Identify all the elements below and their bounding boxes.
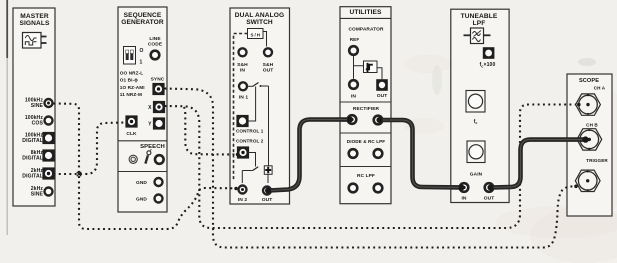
svg-text:IN: IN bbox=[351, 94, 356, 100]
jack CONTROL 2 bbox=[236, 139, 264, 159]
jack comparator IN bbox=[348, 79, 359, 100]
svg-text:IN 2: IN 2 bbox=[238, 197, 248, 203]
switch 2 symbol bbox=[242, 167, 258, 183]
svg-text:GENERATOR: GENERATOR bbox=[121, 19, 164, 26]
knob fc bbox=[466, 91, 485, 126]
svg-text:SPEECH: SPEECH bbox=[140, 144, 165, 150]
plug at CH B bbox=[582, 136, 588, 142]
svg-text:RC LPF: RC LPF bbox=[357, 173, 375, 179]
jack rc lpf out bbox=[372, 182, 383, 193]
svg-text:CODE: CODE bbox=[148, 41, 163, 47]
jack comparator OUT bbox=[376, 79, 388, 99]
plug at lpf IN bbox=[459, 185, 465, 191]
jack X bbox=[148, 101, 165, 113]
jack S&H OUT bbox=[263, 47, 274, 73]
svg-text:Y: Y bbox=[148, 121, 152, 127]
svg-text:X: X bbox=[148, 105, 152, 111]
wire thick lpf OUT to scope CH B bbox=[492, 140, 585, 188]
plug at CH A bbox=[577, 103, 581, 107]
module TUNEABLE LPF bbox=[451, 9, 509, 202]
bnc CH B bbox=[577, 129, 602, 150]
microphone icon bbox=[145, 149, 151, 163]
rectifier divider bbox=[340, 101, 391, 103]
faint pink ghost band 1 bbox=[404, 55, 452, 73]
svg-text:S&H: S&H bbox=[237, 62, 248, 68]
plug at lpf OUT bbox=[488, 185, 494, 191]
wire thick rectifier out to lpf IN bbox=[380, 120, 459, 187]
module UTILITIES bbox=[340, 7, 391, 204]
module MASTER SIGNALS bbox=[13, 8, 55, 206]
jack CONTROL 1 bbox=[236, 115, 264, 133]
jack REF bbox=[348, 45, 359, 56]
svg-text:DIGITAL: DIGITAL bbox=[22, 155, 43, 161]
bnc TRIGGER bbox=[575, 170, 600, 191]
jack GND 1 bbox=[136, 177, 164, 187]
jack Y bbox=[148, 117, 165, 129]
svg-text:LINE: LINE bbox=[149, 36, 161, 42]
line code table bbox=[120, 71, 145, 98]
jack 8kHz DIGITAL bbox=[22, 149, 54, 161]
svg-text:DUAL ANALOG: DUAL ANALOG bbox=[235, 12, 284, 19]
DIP switch bbox=[124, 47, 144, 66]
svg-text:DIGITAL: DIGITAL bbox=[22, 173, 43, 179]
S/H block bbox=[248, 29, 264, 39]
jack S&H IN bbox=[237, 47, 248, 73]
svg-text:1O RZ-AMI: 1O RZ-AMI bbox=[120, 85, 145, 90]
wire dotted X to CONTROL 2 bbox=[184, 107, 235, 155]
jack GND 2 bbox=[136, 193, 164, 203]
svg-text:GAIN: GAIN bbox=[470, 172, 483, 178]
plug at rectifier out bbox=[377, 117, 383, 123]
svg-text:DIGITAL: DIGITAL bbox=[22, 138, 43, 144]
faint pink ghost band 3 bbox=[495, 206, 617, 238]
switch 2 control box bbox=[264, 166, 272, 183]
speech section divider bbox=[118, 140, 167, 142]
svg-text:SEQUENCE: SEQUENCE bbox=[124, 12, 162, 19]
svg-text:UTILITIES: UTILITIES bbox=[349, 9, 382, 16]
svg-text:COS: COS bbox=[32, 120, 44, 126]
jack SYNC bbox=[151, 77, 165, 96]
svg-text:O1 Bi-ϕ: O1 Bi-ϕ bbox=[120, 78, 138, 83]
jack lpf IN bbox=[458, 182, 469, 202]
svg-text:SINE: SINE bbox=[31, 191, 44, 197]
jack 100kHz COS bbox=[25, 115, 54, 126]
svg-text:TUNEABLE: TUNEABLE bbox=[461, 13, 498, 20]
crossing tick at sine wire bbox=[77, 172, 81, 176]
svg-text:GND: GND bbox=[136, 197, 147, 203]
svg-text:SCOPE: SCOPE bbox=[579, 78, 599, 84]
svg-text:OUT: OUT bbox=[377, 93, 388, 99]
svg-text:SWITCH: SWITCH bbox=[246, 19, 273, 26]
svg-text:OUT: OUT bbox=[484, 196, 495, 202]
jack IN 2 bbox=[237, 184, 247, 203]
jack CLK bbox=[125, 115, 137, 137]
knob GAIN bbox=[467, 141, 485, 178]
wire thick dual OUT to rectifier in bbox=[269, 120, 348, 191]
rc lpf divider bbox=[340, 166, 391, 168]
jack 100kHz SINE bbox=[25, 98, 54, 109]
svg-text:DIODE & RC LPF: DIODE & RC LPF bbox=[347, 139, 385, 144]
bnc CH A bbox=[576, 94, 601, 115]
jack 2kHz DIGITAL bbox=[22, 167, 54, 179]
svg-text:GND: GND bbox=[136, 180, 147, 186]
jack lpf OUT bbox=[483, 182, 494, 202]
svg-text:CONTROL 1: CONTROL 1 bbox=[236, 128, 264, 133]
faint pink ghost band 2 bbox=[404, 118, 444, 134]
master signals icon bbox=[23, 33, 47, 49]
svg-text:SYNC: SYNC bbox=[151, 77, 165, 83]
svg-text:OUT: OUT bbox=[263, 67, 274, 73]
svg-text:IN 1: IN 1 bbox=[239, 95, 249, 101]
faint pink tint bottom right bbox=[530, 207, 617, 263]
svg-text:1: 1 bbox=[140, 60, 143, 66]
module DUAL ANALOG SWITCH bbox=[230, 8, 290, 204]
S/H block right link to S&H OUT bbox=[263, 32, 267, 47]
svg-text:IN: IN bbox=[461, 196, 466, 202]
plug at IN 2 bbox=[234, 187, 237, 190]
svg-text:RECTIFIER: RECTIFIER bbox=[353, 106, 380, 112]
svg-text:SINE: SINE bbox=[31, 103, 44, 109]
comparator wiring bbox=[354, 56, 364, 79]
scan page edge line bbox=[6, 0, 8, 58]
speech trimpot bbox=[129, 155, 137, 163]
diode lpf divider bbox=[340, 132, 391, 134]
svg-text:O: O bbox=[140, 48, 144, 54]
svg-text:TRIGGER: TRIGGER bbox=[586, 158, 608, 163]
jack rc lpf in bbox=[347, 182, 358, 193]
wire dotted X to scope CH A bbox=[165, 105, 577, 229]
jack fc x100 bbox=[483, 47, 495, 59]
jack diode lpf out bbox=[372, 148, 383, 159]
module SCOPE bbox=[567, 74, 612, 216]
control 1 line bbox=[248, 87, 256, 122]
module SEQUENCE GENERATOR bbox=[118, 7, 167, 212]
jack 100kHz DIGITAL bbox=[22, 132, 54, 144]
switch 1 symbol bbox=[248, 83, 269, 167]
svg-text:CH B: CH B bbox=[586, 123, 598, 128]
jack OUT (dual analog switch) bbox=[262, 185, 273, 203]
plug at dual OUT bbox=[265, 188, 271, 194]
comparator icon bbox=[364, 61, 378, 73]
jack IN 1 bbox=[238, 81, 249, 100]
svg-text:SIGNALS: SIGNALS bbox=[19, 20, 50, 27]
jack speech out bbox=[154, 154, 165, 165]
svg-text:CH A: CH A bbox=[594, 86, 606, 91]
jack rectifier out bbox=[372, 114, 383, 125]
jack 2kHz SINE bbox=[31, 186, 54, 197]
plug at CONTROL 2 bbox=[236, 153, 239, 156]
S/H internal dashed path bbox=[234, 34, 248, 181]
plug at rectifier in bbox=[347, 117, 353, 123]
svg-text:IN: IN bbox=[240, 67, 245, 73]
jack rectifier in bbox=[346, 114, 357, 125]
svg-text:LPF: LPF bbox=[473, 20, 486, 27]
gnd section divider bbox=[118, 171, 167, 173]
plug at TRIGGER bbox=[574, 185, 578, 189]
control 2 line bbox=[249, 153, 256, 167]
svg-text:REF: REF bbox=[350, 37, 360, 42]
wire dotted 100kHz SINE to IN 2 bbox=[54, 104, 235, 230]
svg-text:11 NRZ-M: 11 NRZ-M bbox=[120, 92, 142, 97]
wire dotted SYNC to TRIGGER bbox=[165, 89, 574, 248]
svg-text:OO NRZ-L: OO NRZ-L bbox=[120, 71, 143, 76]
svg-text:CLK: CLK bbox=[126, 131, 137, 137]
svg-text:S&H: S&H bbox=[263, 62, 274, 68]
svg-text:S / H: S / H bbox=[251, 32, 261, 37]
wire dotted 2kHz DIGITAL to CLK bbox=[54, 123, 126, 175]
faint scan smudge near utilities top bbox=[432, 65, 442, 95]
svg-text:COMPARATOR: COMPARATOR bbox=[348, 27, 384, 33]
faint scan smudge above scope bbox=[578, 58, 596, 66]
svg-text:CONTROL 2: CONTROL 2 bbox=[236, 139, 264, 144]
jack LINE CODE bbox=[148, 36, 163, 61]
svg-text:OUT: OUT bbox=[262, 197, 273, 203]
svg-text:MASTER: MASTER bbox=[20, 13, 49, 20]
jack diode lpf in bbox=[347, 148, 358, 159]
lpf icon bbox=[464, 28, 491, 44]
